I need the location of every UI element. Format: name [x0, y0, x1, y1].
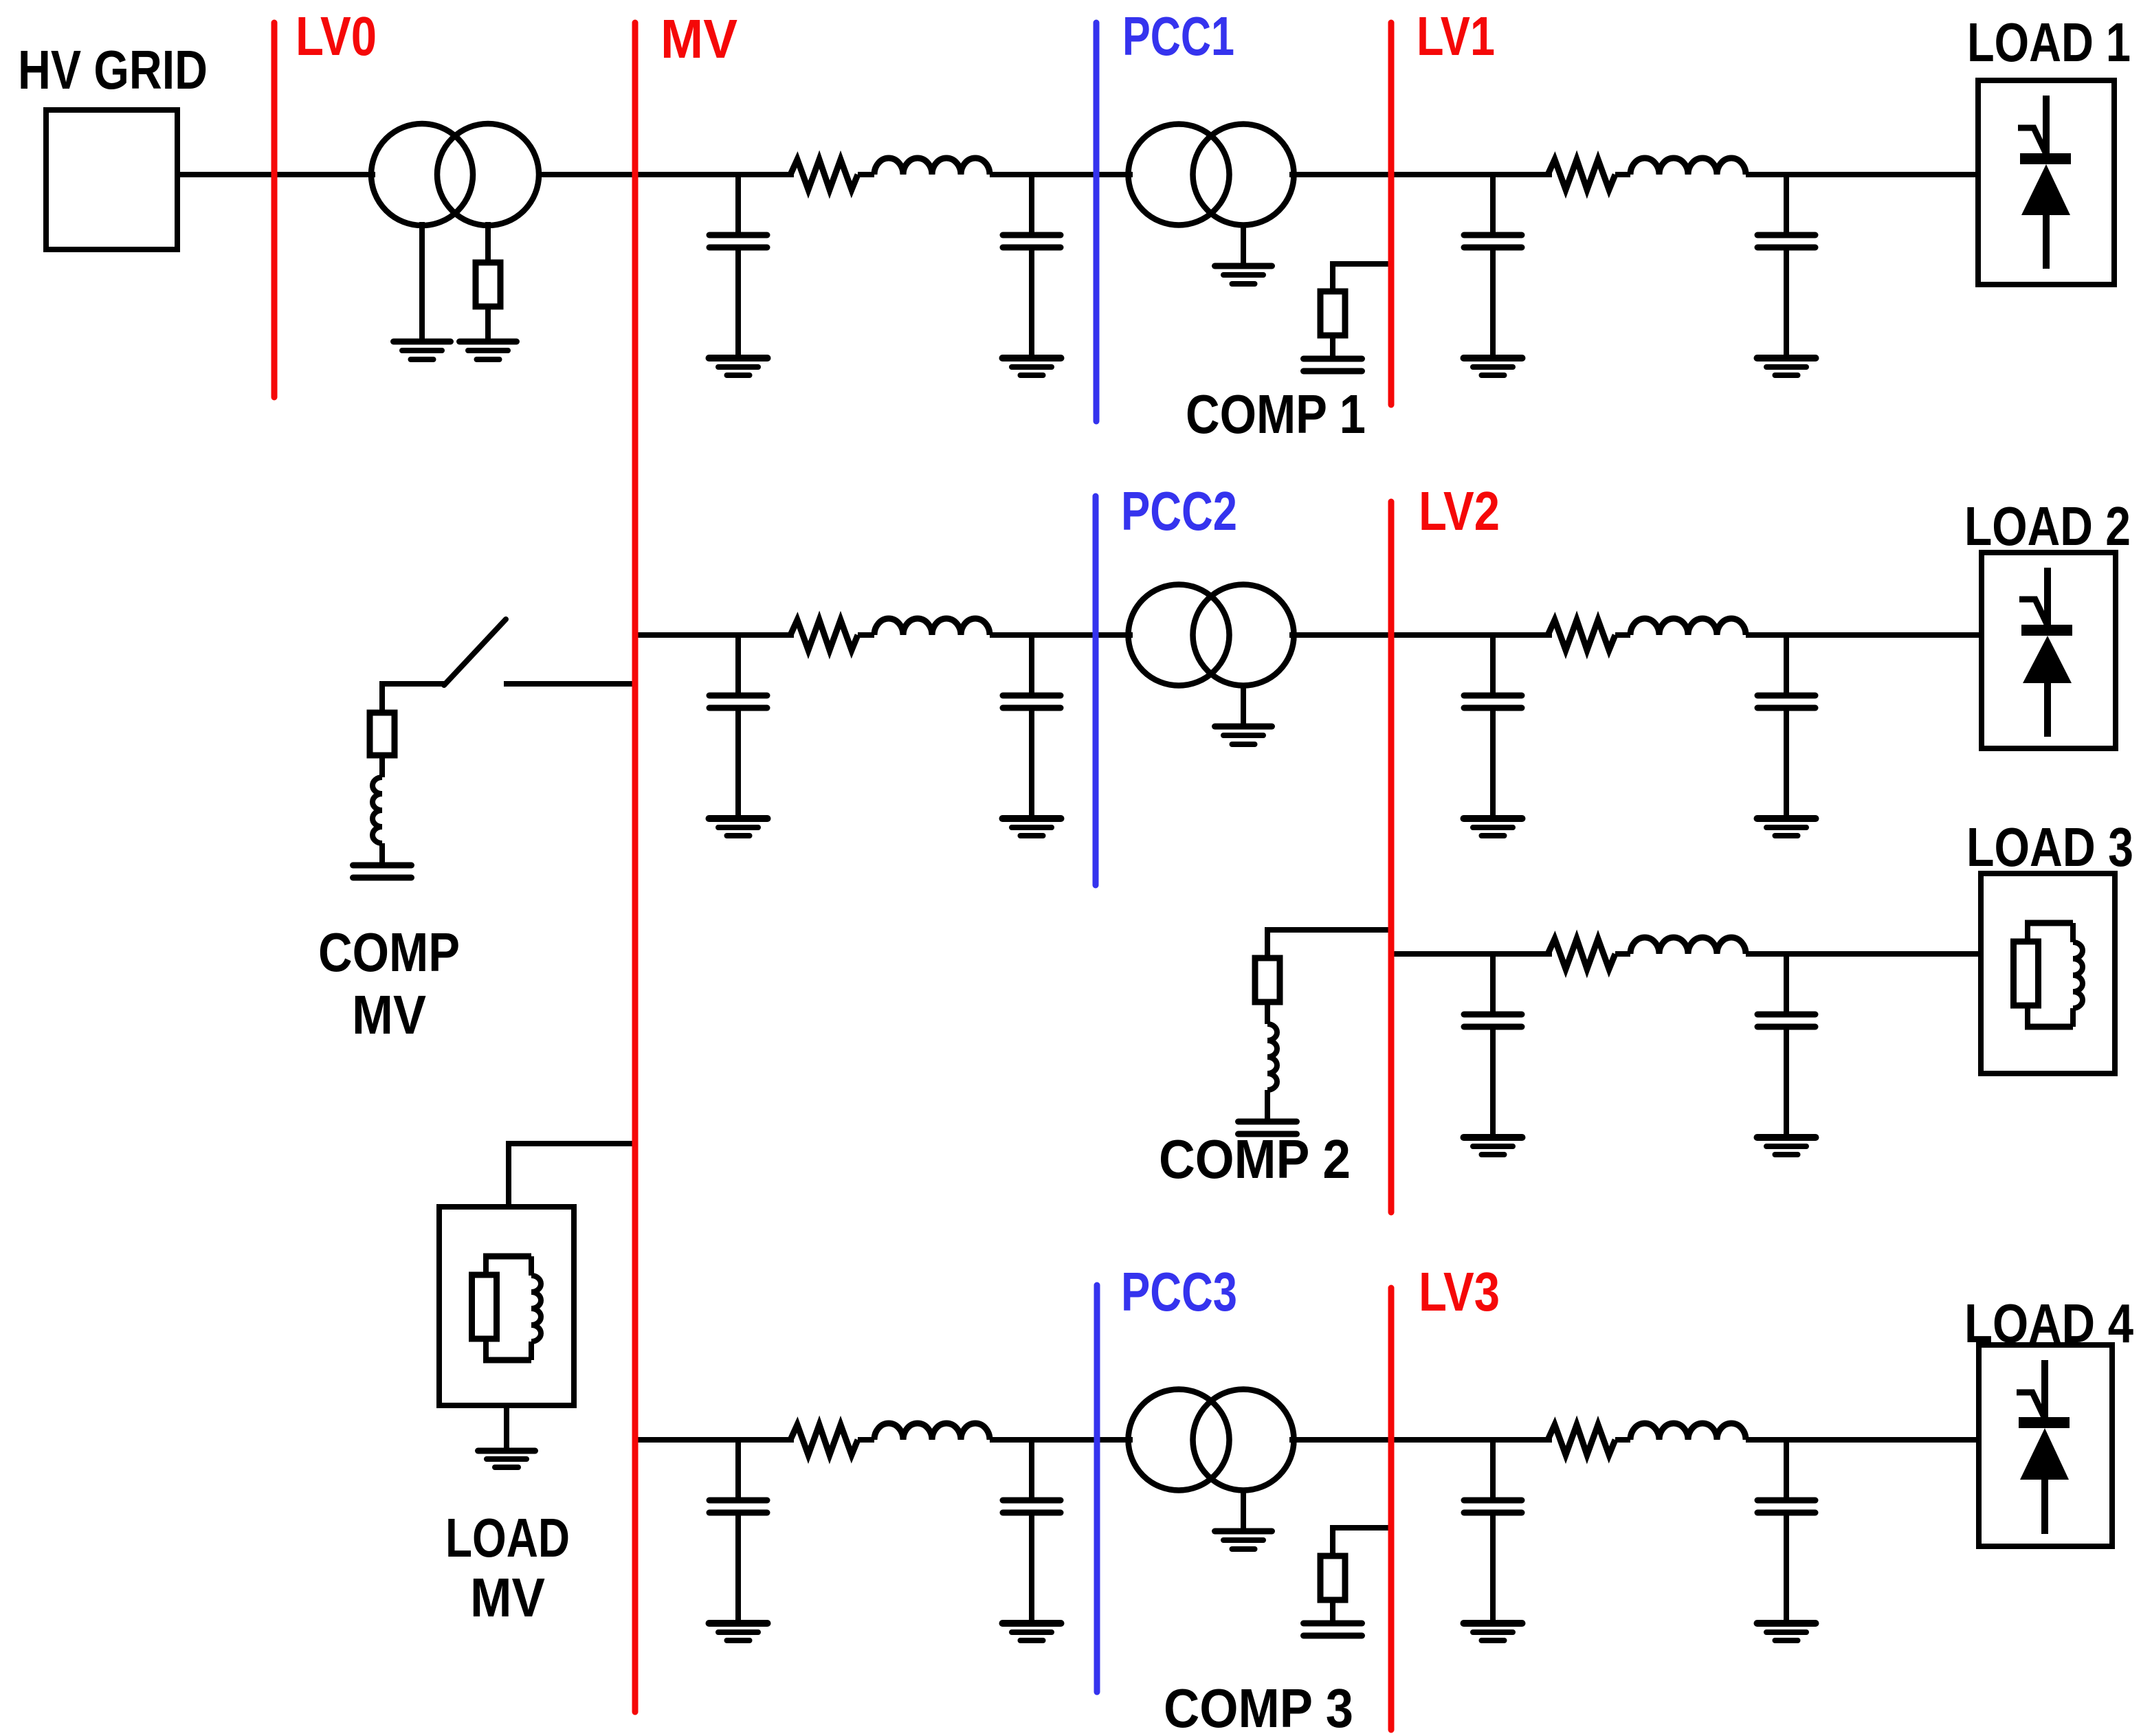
- wire R3 to L3: [858, 632, 874, 638]
- inductor row1 L1: [874, 158, 990, 175]
- inductor row2 L3: [874, 619, 990, 635]
- capacitor row2 C2b: [1003, 635, 1061, 819]
- wire COMP MV vertical: [379, 681, 385, 713]
- label COMP (MV): [318, 922, 460, 983]
- wire LOAD MV vertical: [506, 1141, 511, 1208]
- label LOAD 1: [1967, 12, 2131, 73]
- inductor row4 L6: [874, 1423, 990, 1440]
- label LV0: [296, 5, 377, 67]
- ground: [709, 819, 768, 836]
- ground: [460, 342, 517, 359]
- wire COMP 1 vertical: [1330, 261, 1335, 291]
- label HV GRID: [18, 39, 208, 100]
- ground: [1757, 819, 1816, 836]
- wire COMP MV resistor to inductor: [379, 755, 385, 777]
- inductor row3 L5: [1630, 937, 1746, 954]
- capacitor row1 C1a: [709, 175, 767, 358]
- svg-text:LV2: LV2: [1419, 480, 1500, 542]
- wire COMP 2 inductor to ground: [1265, 1090, 1270, 1122]
- LOAD 2 thyristor symbol: [2019, 568, 2072, 737]
- svg-text:PCC1: PCC1: [1122, 5, 1234, 67]
- capacitor row4 C4b: [1003, 1440, 1061, 1623]
- ground: [1757, 1623, 1816, 1640]
- wire COMP 1 to ground: [1330, 335, 1335, 359]
- label LOAD 3: [1966, 816, 2133, 878]
- inductor COMP 2: [1267, 1024, 1277, 1090]
- ground: [709, 1623, 768, 1640]
- svg-text:COMP: COMP: [318, 922, 460, 983]
- capacitor row2 C2d: [1757, 635, 1815, 819]
- wire R6 to L6: [858, 1437, 874, 1443]
- wire LV2 bus to row3: [1391, 951, 1552, 957]
- bus MV: [632, 23, 639, 1712]
- transformer T0 (HV-MV): [371, 124, 539, 225]
- wire T3 to LV3 section: [1289, 1437, 1552, 1443]
- wire resistor to ground: [485, 307, 491, 342]
- wire MV bus to R1 row1: [635, 172, 794, 177]
- ground: [1003, 358, 1061, 375]
- wire T0 right winding to resistor: [485, 222, 491, 263]
- label COMP 2: [1159, 1128, 1351, 1190]
- resistor COMP MV: [370, 713, 395, 755]
- inductor row2 L4: [1630, 619, 1746, 635]
- ground: [1464, 1137, 1522, 1155]
- ground COMP 2: [1239, 1122, 1297, 1134]
- capacitor row4 C4c: [1464, 1440, 1522, 1623]
- ground: [1215, 726, 1272, 744]
- resistor row2 R4: [1548, 620, 1615, 650]
- wire COMP 2 resistor to inductor: [1265, 1002, 1270, 1024]
- svg-text:LOAD 1: LOAD 1: [1967, 12, 2131, 73]
- label MV (COMP MV): [352, 984, 426, 1045]
- wire COMP 3 vertical: [1330, 1525, 1335, 1556]
- resistor row1 R2: [1548, 159, 1615, 190]
- bus LV3: [1388, 1288, 1395, 1730]
- svg-text:LOAD 3: LOAD 3: [1966, 816, 2133, 878]
- resistor row2 R3: [790, 620, 858, 650]
- resistor row4 R6: [790, 1425, 858, 1455]
- label MV (LOAD MV): [470, 1567, 545, 1628]
- ground: [1757, 1137, 1816, 1155]
- bus PCC1: [1094, 23, 1100, 421]
- ground: [1215, 266, 1272, 284]
- label LOAD 2: [1964, 496, 2131, 557]
- bus LV2: [1388, 502, 1395, 1212]
- ground: [1215, 1531, 1272, 1549]
- LOAD 1 box: [1978, 80, 2114, 285]
- label LV2: [1419, 480, 1500, 542]
- wire COMP 3 to ground: [1330, 1600, 1335, 1623]
- wire L2 to LOAD 1: [1746, 172, 1978, 177]
- svg-text:MV: MV: [352, 984, 426, 1045]
- label PCC2: [1121, 480, 1237, 542]
- wire R1 to L1: [858, 172, 874, 177]
- capacitor row2 C2c: [1464, 635, 1522, 819]
- wire L7 to LOAD 4: [1746, 1437, 1979, 1443]
- svg-text:HV GRID: HV GRID: [18, 39, 208, 100]
- wire COMP 3 to LV3 bus: [1333, 1525, 1391, 1531]
- inductor row4 L7: [1630, 1423, 1746, 1440]
- bus PCC3: [1094, 1285, 1100, 1692]
- wire MV bus to R3 row2: [635, 632, 794, 638]
- label PCC1: [1122, 5, 1234, 67]
- wire switch left: [381, 681, 447, 687]
- wire L6 to transformer T3: [990, 1437, 1133, 1443]
- svg-text:PCC3: PCC3: [1121, 1261, 1237, 1322]
- svg-text:LV1: LV1: [1417, 5, 1495, 67]
- transformer T2: [1129, 585, 1294, 686]
- label COMP 3: [1164, 1678, 1353, 1736]
- ground: [1464, 1623, 1522, 1640]
- wire R2 to L2: [1615, 172, 1630, 177]
- wire T0 left winding to ground: [419, 222, 425, 342]
- ground: [1464, 358, 1522, 375]
- wire: [1241, 683, 1246, 724]
- ground: [709, 358, 768, 375]
- ground LOAD MV: [478, 1451, 535, 1467]
- wire: [1241, 223, 1246, 264]
- ground: [1003, 1623, 1061, 1640]
- wire COMP 2 to LV2 bus: [1267, 927, 1391, 933]
- capacitor row3 C3b: [1757, 954, 1815, 1137]
- transformer T1: [1129, 124, 1294, 225]
- capacitor row1 C1c: [1464, 175, 1522, 358]
- svg-text:LV3: LV3: [1419, 1261, 1500, 1322]
- LOAD 4 thyristor symbol: [2017, 1360, 2070, 1534]
- resistor T0 neutral: [476, 263, 500, 307]
- svg-text:COMP 3: COMP 3: [1164, 1678, 1353, 1736]
- wire R7 to L7: [1615, 1437, 1630, 1443]
- resistor row4 R7: [1548, 1425, 1615, 1455]
- bus LV1: [1388, 23, 1395, 405]
- label LV1: [1417, 5, 1495, 67]
- ground COMP MV: [353, 865, 412, 878]
- label MV: [661, 8, 737, 69]
- capacitor row1 C1b: [1003, 175, 1061, 358]
- wire L3 to transformer T2: [990, 632, 1133, 638]
- LOAD 2 box: [1982, 553, 2116, 748]
- svg-text:COMP 1: COMP 1: [1186, 383, 1366, 445]
- LOAD 3 parallel RL symbol: [2014, 923, 2083, 1027]
- LOAD MV parallel RL symbol: [472, 1256, 542, 1360]
- resistor row3 R5: [1548, 939, 1615, 969]
- wire T1 to LV1 section: [1289, 172, 1552, 177]
- bus PCC2: [1093, 496, 1099, 885]
- wire LOAD MV to ground: [504, 1405, 509, 1449]
- resistor COMP 1: [1320, 291, 1345, 335]
- capacitor row2 C2a: [709, 635, 767, 819]
- wire T0 to MV bus: [538, 172, 635, 177]
- wire R4 to L4: [1615, 632, 1630, 638]
- transformer T3: [1129, 1390, 1294, 1491]
- label LOAD (MV): [445, 1507, 570, 1568]
- capacitor row1 C1d: [1757, 175, 1815, 358]
- capacitor row4 C4d: [1757, 1440, 1815, 1623]
- ground: [1464, 819, 1522, 836]
- wire MV bus to R6 row4: [635, 1437, 794, 1443]
- wire L4 to LOAD 2: [1746, 632, 1982, 638]
- wire COMP MV inductor to ground: [379, 843, 385, 865]
- LOAD 4 box: [1979, 1345, 2112, 1546]
- wire T2 to LV2 section: [1289, 632, 1552, 638]
- svg-text:PCC2: PCC2: [1121, 480, 1237, 542]
- capacitor row3 C3a: [1464, 954, 1522, 1137]
- svg-text:LOAD 2: LOAD 2: [1964, 496, 2131, 557]
- resistor COMP 3: [1320, 1556, 1345, 1600]
- svg-text:COMP 2: COMP 2: [1159, 1128, 1351, 1190]
- ground: [394, 342, 451, 359]
- ground: [1757, 358, 1816, 375]
- label LV3: [1419, 1261, 1500, 1322]
- wire switch to MV bus: [504, 681, 635, 687]
- bus LV0: [271, 23, 278, 397]
- wire L1 to transformer T1: [990, 172, 1133, 177]
- wire COMP 1 to LV1 bus: [1333, 261, 1391, 267]
- ground COMP 3: [1304, 1623, 1362, 1636]
- wire L5 to LOAD 3: [1746, 951, 1981, 957]
- svg-text:MV: MV: [470, 1567, 545, 1628]
- switch COMP MV blade: [444, 619, 506, 685]
- LOAD 1 thyristor symbol: [2018, 96, 2071, 269]
- ground COMP 1: [1304, 359, 1362, 371]
- svg-text:MV: MV: [661, 8, 737, 69]
- HV GRID box: [46, 110, 177, 249]
- wire LOAD MV to MV bus: [509, 1141, 635, 1146]
- resistor row1 R1: [790, 159, 858, 190]
- wire COMP 2 vertical: [1265, 927, 1270, 958]
- wire: [1241, 1488, 1246, 1529]
- svg-text:LV0: LV0: [296, 5, 377, 67]
- inductor COMP MV: [373, 777, 382, 843]
- label LOAD 4: [1964, 1293, 2133, 1354]
- ground: [1003, 819, 1061, 836]
- capacitor row4 C4a: [709, 1440, 767, 1623]
- wire R5 to L5: [1615, 951, 1630, 957]
- wire HV GRID to transformer T0: [177, 172, 375, 177]
- inductor row1 L2: [1630, 158, 1746, 175]
- LOAD MV box: [439, 1207, 574, 1405]
- svg-text:LOAD: LOAD: [445, 1507, 570, 1568]
- label PCC3: [1121, 1261, 1237, 1322]
- resistor COMP 2: [1255, 958, 1280, 1002]
- LOAD 3 box: [1981, 873, 2115, 1073]
- label COMP 1: [1186, 383, 1366, 445]
